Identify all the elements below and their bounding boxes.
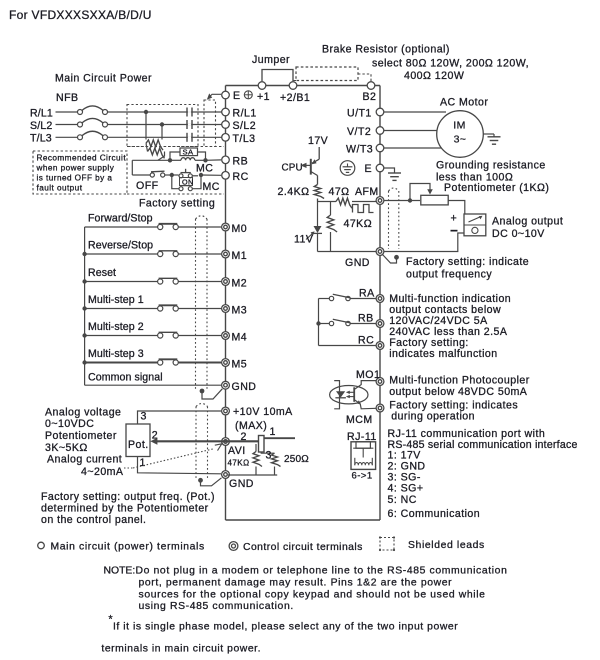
svg-text:Shielded leads: Shielded leads	[408, 540, 485, 551]
svg-text:S/L2: S/L2	[233, 120, 257, 132]
svg-text:RB: RB	[233, 155, 249, 167]
svg-text:S/L2: S/L2	[30, 120, 52, 132]
svg-text:Main circuit (power) terminals: Main circuit (power) terminals	[51, 542, 205, 553]
svg-text:when power supply: when power supply	[36, 164, 115, 173]
svg-text:17V: 17V	[308, 135, 329, 147]
svg-text:RA: RA	[359, 288, 375, 300]
svg-text:3: 3	[141, 411, 147, 423]
svg-text:Factory setting: indicate: Factory setting: indicate	[406, 256, 529, 268]
svg-text:Multi-step 1: Multi-step 1	[88, 294, 144, 306]
svg-text:terminals in main circuit powe: terminals in main circuit power.	[101, 644, 261, 655]
svg-text:R/L1: R/L1	[30, 107, 53, 119]
svg-text:R/L1: R/L1	[233, 108, 257, 120]
svg-text:Factory setting: output freq.: Factory setting: output freq. (Pot.)	[41, 491, 215, 503]
svg-text:Reverse/Stop: Reverse/Stop	[88, 240, 153, 252]
svg-text:MC: MC	[196, 163, 213, 175]
svg-text:AFM: AFM	[355, 186, 379, 198]
svg-text:Grounding resistance: Grounding resistance	[436, 160, 546, 172]
svg-text:3K~5KΩ: 3K~5KΩ	[45, 442, 88, 454]
svg-text:sources for the optional copy: sources for the optional copy keypad and…	[139, 589, 486, 600]
svg-text:IM: IM	[453, 120, 466, 132]
svg-text:47KΩ: 47KΩ	[344, 218, 373, 230]
svg-text:Analog voltage: Analog voltage	[45, 407, 121, 419]
svg-text:M1: M1	[232, 250, 248, 262]
svg-text:T/L3: T/L3	[30, 133, 52, 145]
svg-text:Jumper: Jumper	[252, 54, 290, 66]
svg-text:W/T3: W/T3	[346, 144, 373, 156]
svg-text:M4: M4	[232, 332, 248, 344]
svg-text:Multi-function Photocoupler: Multi-function Photocoupler	[389, 375, 530, 387]
svg-text:determined by the Potentiomete: determined by the Potentiometer	[41, 503, 209, 515]
svg-text:Control circuit terminals: Control circuit terminals	[243, 542, 363, 553]
svg-text:Potentiometer: Potentiometer	[45, 430, 117, 442]
svg-text:less than 100Ω: less than 100Ω	[436, 172, 513, 184]
svg-text:0~10VDC: 0~10VDC	[45, 418, 94, 430]
svg-text:MC: MC	[203, 181, 220, 193]
svg-text:U/T1: U/T1	[347, 108, 372, 120]
svg-text:Do not plug in a modem or tele: Do not plug in a modem or telephone line…	[136, 566, 508, 577]
svg-text:V/T2: V/T2	[347, 126, 371, 138]
svg-text:B2: B2	[363, 91, 377, 103]
svg-text:1: 1	[270, 426, 276, 438]
svg-text:4: SG+: 4: SG+	[388, 482, 424, 494]
svg-text:RB: RB	[358, 313, 374, 325]
svg-text:2.4KΩ: 2.4KΩ	[278, 186, 310, 198]
svg-text:select 80Ω 120W, 200Ω 120W,: select 80Ω 120W, 200Ω 120W,	[372, 58, 529, 70]
svg-text:6->1: 6->1	[352, 471, 373, 482]
svg-text:Forward/Stop: Forward/Stop	[88, 213, 153, 225]
svg-text:M3: M3	[232, 305, 248, 317]
svg-text:+: +	[451, 213, 458, 225]
svg-text:GND: GND	[232, 381, 257, 393]
svg-text:Analog current: Analog current	[47, 454, 122, 466]
svg-text:ON: ON	[182, 177, 194, 186]
svg-text:AC Motor: AC Motor	[440, 97, 488, 109]
svg-text:CPU: CPU	[282, 163, 303, 174]
svg-text:on the control panel.: on the control panel.	[41, 514, 146, 526]
svg-text:1: 1	[140, 457, 146, 469]
svg-text:Main Circuit Power: Main Circuit Power	[55, 73, 152, 85]
svg-text:Pot.: Pot.	[128, 439, 149, 451]
svg-text:2: 2	[241, 431, 247, 443]
svg-text:If it is single phase model, p: If it is single phase model, please sele…	[113, 622, 458, 633]
svg-text:M0: M0	[232, 223, 248, 235]
svg-text:400Ω 120W: 400Ω 120W	[404, 70, 464, 82]
svg-text:3~: 3~	[454, 134, 467, 146]
svg-text:during operation: during operation	[391, 410, 475, 422]
svg-text:+10V 10mA: +10V 10mA	[233, 406, 293, 418]
svg-text:E: E	[365, 163, 373, 175]
svg-text:6: Communication: 6: Communication	[388, 508, 481, 520]
svg-text:NFB: NFB	[56, 92, 79, 104]
svg-text:Multi-step 2: Multi-step 2	[88, 321, 144, 333]
svg-text:AVI: AVI	[228, 445, 246, 457]
svg-text:GND: GND	[345, 257, 370, 269]
svg-text:MO1: MO1	[356, 369, 380, 381]
svg-text:M2: M2	[232, 278, 248, 290]
svg-text:11V: 11V	[294, 234, 314, 246]
svg-text:output below 48VDC 50mA: output below 48VDC 50mA	[389, 386, 528, 398]
svg-text:port, permanent damage may res: port, permanent damage may result. Pins …	[139, 577, 453, 588]
svg-text:47KΩ: 47KΩ	[228, 459, 250, 468]
svg-text:RC: RC	[233, 171, 249, 183]
svg-text:GND: GND	[229, 478, 254, 490]
svg-text:T/L3: T/L3	[233, 133, 256, 145]
svg-text:using RS-485 communication.: using RS-485 communication.	[139, 601, 294, 612]
svg-text:Factory setting: Factory setting	[139, 198, 215, 210]
svg-text:RC: RC	[358, 335, 374, 347]
svg-text:+2/B1: +2/B1	[280, 92, 310, 104]
svg-text:4~20mA: 4~20mA	[81, 466, 124, 478]
svg-text:Reset: Reset	[88, 267, 116, 279]
svg-text:SA: SA	[183, 148, 195, 157]
svg-text:+1: +1	[257, 91, 270, 103]
svg-text:OFF: OFF	[136, 180, 159, 192]
svg-text:250Ω: 250Ω	[284, 454, 309, 465]
svg-text:Common signal: Common signal	[88, 372, 163, 384]
svg-text:Potentiometer (1KΩ): Potentiometer (1KΩ)	[444, 182, 549, 194]
svg-text:Brake Resistor (optional): Brake Resistor (optional)	[322, 44, 450, 56]
svg-text:For VFDXXXSXXA/B/D/U: For VFDXXXSXXA/B/D/U	[9, 8, 152, 22]
svg-text:MCM: MCM	[346, 414, 373, 426]
svg-text:indicates malfunction: indicates malfunction	[389, 348, 497, 360]
svg-text:output frequency: output frequency	[406, 269, 492, 281]
svg-text:fault output: fault output	[37, 184, 83, 193]
svg-text:is turned OFF by a: is turned OFF by a	[37, 174, 113, 183]
svg-text:47Ω: 47Ω	[329, 186, 350, 198]
svg-text:Analog output: Analog output	[492, 216, 563, 228]
svg-text:Recommended Circuit: Recommended Circuit	[37, 154, 127, 163]
svg-text:NOTE:: NOTE:	[104, 566, 136, 577]
svg-text:3: 3	[266, 450, 272, 462]
svg-text:DC 0~10V: DC 0~10V	[492, 228, 545, 240]
svg-text:5: NC: 5: NC	[388, 494, 417, 506]
svg-text:M5: M5	[232, 359, 248, 371]
svg-text:E: E	[233, 90, 241, 102]
svg-text:Multi-step 3: Multi-step 3	[88, 348, 144, 360]
